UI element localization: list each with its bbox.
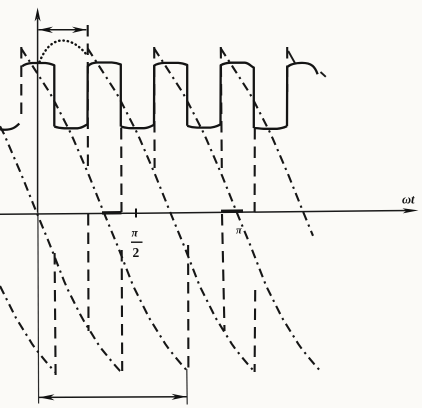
dashed vertical at x=221 upper part bbox=[221, 47, 222, 168]
dashed vertical at x=88 lower part bbox=[87, 214, 89, 331]
dashed vertical at x=55 below axis bbox=[55, 253, 56, 375]
solid waveform: bottom arc x=254..287 bbox=[254, 126, 287, 129]
dashed vertical at x=221 lower part bbox=[222, 214, 225, 331]
y-axis extension below axis bbox=[37, 213, 40, 404]
dash-dot supply curve u1 crossing axis at x=38 bbox=[0, 126, 122, 372]
x-axis bbox=[0, 211, 412, 215]
x-axis arrowhead bbox=[403, 208, 419, 213]
dashed vertical at x=154 upper part bbox=[153, 47, 156, 168]
thick retouch bar on axis segment 2 bbox=[221, 209, 243, 213]
dash-dot supply curve u3 from peak x=88 bbox=[88, 49, 255, 372]
top dimension line from x=38 to x=87 bbox=[39, 29, 87, 31]
svg-text:π: π bbox=[132, 228, 139, 240]
svg-text:π: π bbox=[236, 226, 242, 237]
solid waveform: top arc x=22..54 and drop at x=54 bbox=[22, 63, 54, 127]
first dash of supply curve u6 from peak x=287 bbox=[288, 51, 295, 64]
pi/2 tick on axis bbox=[135, 209, 137, 218]
dashed vertical at x=121 above axis bbox=[120, 128, 122, 212]
dashed vertical at x=88 upper part bbox=[87, 25, 89, 168]
solid waveform: rise at x=88, top arc, drop at x=121 bbox=[88, 63, 121, 127]
solid waveform: rise at x=287, final top arc with hook bbox=[287, 63, 318, 126]
solid waveform: bottom arc x=187..220 bbox=[187, 124, 220, 127]
svg-text:ωt: ωt bbox=[402, 193, 415, 207]
dash-dot supply curve u0 (lower left) bbox=[0, 286, 55, 372]
y-axis arrowhead bbox=[35, 8, 41, 22]
dashed vertical at x=255 above axis bbox=[254, 128, 256, 212]
y-axis bbox=[37, 18, 39, 213]
dash-dot supply curve u2 from peak x=21 bbox=[21, 49, 188, 373]
dash-dot supply curve u4 from peak x=154 bbox=[154, 49, 321, 372]
solid waveform: bottom arc x=54..87 bbox=[54, 124, 87, 128]
dotted half-sine arc at top left bbox=[40, 41, 87, 63]
dash-dot stub of next supply curve at far right bbox=[321, 72, 326, 77]
svg-text:2: 2 bbox=[133, 245, 140, 260]
dashed vertical at x=121 below axis bbox=[121, 250, 124, 371]
solid waveform: bottom arc x=121..154 bbox=[121, 125, 154, 128]
dashed vertical at x=21 bbox=[20, 47, 22, 120]
solid waveform: rise at x=154, top arc, drop at x=187 bbox=[154, 63, 187, 126]
dashed vertical at x=287 bbox=[286, 47, 288, 92]
bottom dimension line from x=38 to x=187 bbox=[39, 396, 187, 399]
dashed vertical at x=188 below axis bbox=[187, 245, 189, 371]
dashed vertical at x=255 below axis bbox=[254, 290, 257, 372]
right extension line of bottom dimension bbox=[186, 369, 188, 405]
dash-dot supply curve u5 from peak x=221 (truncated) bbox=[221, 49, 313, 236]
solid waveform: bottom arc x=0..19 bbox=[0, 124, 19, 130]
solid waveform: rise at x=220, top arc, drop at x=254 bbox=[221, 63, 254, 128]
thick retouch bar on axis segment 1 bbox=[102, 211, 122, 215]
